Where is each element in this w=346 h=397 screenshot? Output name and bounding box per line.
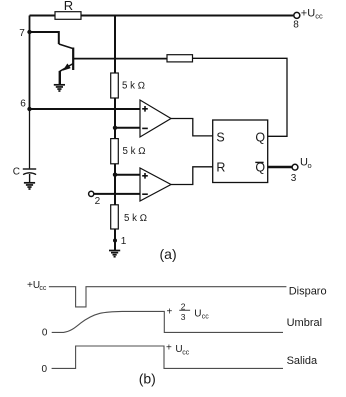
svg-text:Q: Q [255,161,265,175]
svg-text:U: U [194,308,201,319]
svg-text:0: 0 [42,364,48,375]
svg-text:+: + [167,307,173,318]
svg-text:C: C [13,166,20,177]
svg-text:(a): (a) [160,246,177,262]
svg-text:+U: +U [301,7,315,19]
svg-text:5 k Ω: 5 k Ω [124,213,147,224]
svg-text:1: 1 [121,236,127,247]
svg-text:cc: cc [202,314,210,321]
svg-text:o: o [308,161,312,170]
svg-text:Salida: Salida [287,355,318,367]
svg-text:Umbral: Umbral [287,317,322,329]
svg-text:3: 3 [181,312,186,322]
svg-text:6: 6 [20,99,26,110]
svg-text:cc: cc [182,349,190,356]
svg-text:5 k Ω: 5 k Ω [123,146,146,157]
svg-text:7: 7 [19,28,25,39]
svg-text:0: 0 [42,327,48,338]
svg-text:+: + [166,343,172,354]
svg-text:2: 2 [181,302,186,312]
svg-text:3: 3 [291,173,297,184]
svg-text:R: R [64,0,73,13]
svg-text:S: S [216,130,224,144]
svg-text:cc: cc [315,12,323,21]
svg-text:5 k Ω: 5 k Ω [122,80,145,91]
svg-text:R: R [216,161,225,175]
svg-text:8: 8 [293,20,299,31]
svg-text:(b): (b) [139,370,156,386]
svg-text:2: 2 [95,196,101,207]
svg-text:+U: +U [27,280,40,291]
svg-text:Q: Q [255,130,265,144]
svg-text:Disparo: Disparo [289,285,327,297]
svg-text:cc: cc [39,285,47,292]
